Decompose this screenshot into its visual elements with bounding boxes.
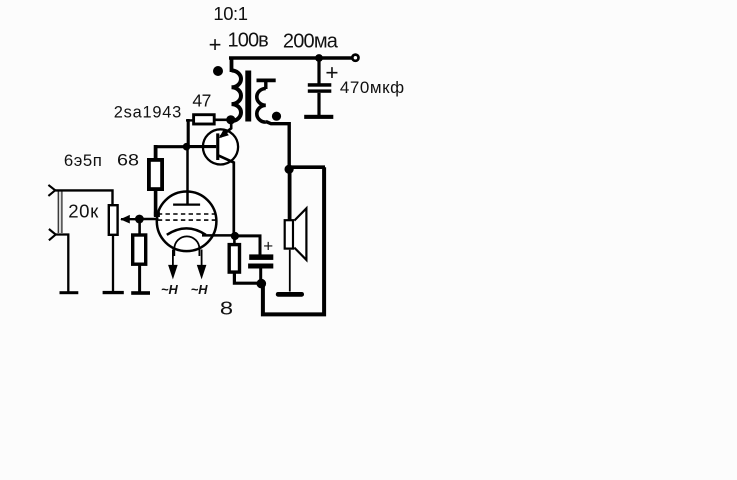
heater arrow right shaft: [201, 250, 203, 271]
ground bar speaker: [276, 292, 304, 297]
tube V1 heater arch: [174, 236, 199, 256]
capacitor C2 feed wire: [236, 236, 260, 255]
input cable double line: [58, 191, 62, 233]
resistor R4 8 top lead: [233, 237, 236, 244]
capacitor C1 lead bottom: [317, 93, 320, 115]
svg-text:+: +: [263, 237, 273, 256]
svg-text:~Н: ~Н: [161, 282, 178, 297]
wire R4 bottom lead: [234, 272, 259, 283]
heater arrow left head: [168, 265, 178, 280]
svg-text:10:1: 10:1: [213, 3, 247, 24]
node C2 bottom junction dot: [257, 279, 267, 289]
transformer T1 core: [245, 71, 251, 122]
node primary bottom junction: [226, 115, 235, 124]
wire R1 left corner down: [187, 119, 190, 145]
svg-text:20к: 20к: [68, 200, 99, 221]
capacitor C1 bottom bar: [304, 115, 333, 119]
pot wiper arrow head: [120, 215, 130, 224]
svg-text:8: 8: [220, 299, 233, 319]
tube V1 cathode lead: [202, 234, 233, 237]
wire top supply rail: [229, 56, 352, 60]
resistor R3 grid leak body: [133, 235, 146, 264]
wire anode lead: [186, 148, 189, 204]
wire wiper down to grid leak resistor: [138, 221, 141, 234]
wire secondary junction horizontal: [289, 165, 325, 169]
transistor Q1 base lead: [188, 145, 216, 148]
wire R1 left lead: [186, 119, 193, 121]
wire pot bottom lead: [112, 236, 114, 292]
resistor R1 47 body: [194, 115, 215, 124]
tube V1 screen grid dashed: [158, 213, 216, 215]
node junction on rail: [315, 54, 323, 62]
svg-text:68: 68: [117, 152, 139, 170]
transformer T1 secondary stub: [264, 80, 267, 89]
tube V1 anode plate: [173, 203, 200, 205]
transistor Q1 collector lead: [218, 155, 234, 233]
ground bar R3: [131, 291, 150, 295]
wire base node to left: [154, 145, 184, 148]
node base junction dot: [183, 143, 191, 151]
terminal open circle: [352, 55, 358, 61]
transistor Q1 emitter lead: [220, 121, 231, 137]
wire R1 right lead: [215, 119, 229, 122]
wire R3 bottom lead: [138, 264, 141, 292]
node wiper junction dot: [135, 215, 144, 224]
tube V1 envelope circle: [157, 192, 217, 252]
node secondary junction dot: [285, 165, 294, 174]
svg-text:+: +: [209, 32, 222, 57]
tube V1 cathode arc: [167, 228, 206, 234]
speaker bottom lead: [289, 250, 291, 292]
potentiometer 20к body: [109, 205, 118, 235]
ground bar input: [60, 291, 79, 294]
svg-text:470мкф: 470мкф: [340, 78, 405, 97]
capacitor C1 470мкф lead top: [317, 59, 320, 84]
capacitor C2 bottom plate: [248, 264, 273, 269]
resistor R4 8 body: [229, 245, 239, 273]
transformer T1 secondary winding: [257, 89, 266, 123]
wire secondary bottom lead: [266, 122, 289, 169]
transformer T1 primary winding: [232, 71, 242, 121]
speaker LS1 body: [285, 220, 293, 248]
svg-text:200ма: 200ма: [283, 30, 339, 52]
tube V1 control grid dashed: [158, 219, 216, 221]
input jack bottom contact: [49, 229, 56, 240]
wire speaker top lead: [288, 170, 292, 220]
transformer T1 secondary top bar: [257, 79, 276, 83]
wire wiper to grid: [141, 218, 159, 220]
svg-text:100в: 100в: [228, 30, 269, 52]
capacitor C1 bottom plate: [308, 89, 332, 92]
transformer T1 secondary phase dot: [272, 112, 281, 121]
capacitor C2 bottom lead: [259, 269, 262, 282]
tube V1 anode lead inside: [186, 192, 189, 205]
transistor Q1 emitter arrow: [219, 129, 229, 139]
speaker LS1 cone: [294, 208, 306, 260]
svg-text:~Н: ~Н: [191, 282, 208, 297]
node screen grid tie blob: [154, 212, 160, 217]
resistor R2 68 body: [149, 160, 162, 189]
wire corner down to R2: [154, 145, 158, 159]
transformer T1 primary top lead: [230, 58, 234, 72]
ground bar pot: [103, 291, 124, 294]
transistor Q1 base bar: [216, 133, 219, 160]
wire input top to pot: [55, 190, 112, 205]
transformer T1 primary phase dot: [213, 66, 223, 76]
svg-text:47: 47: [192, 90, 211, 110]
heater arrow left shaft: [172, 250, 174, 271]
svg-text:6э5п: 6э5п: [64, 151, 103, 170]
wire bottom return loop: [263, 167, 324, 314]
heater arrow right head: [197, 265, 207, 280]
capacitor C1 top plate: [308, 83, 332, 87]
capacitor C2 top plate: [249, 254, 273, 260]
input jack top contact: [48, 185, 55, 196]
svg-text:2sa1943: 2sa1943: [114, 103, 182, 121]
transistor Q1 circle: [203, 129, 238, 164]
node cathode junction dot: [231, 232, 239, 240]
pot wiper wire: [121, 218, 138, 220]
wire R2 bottom lead: [154, 189, 158, 216]
wire input sleeve to ground: [56, 235, 69, 292]
svg-text:+: +: [325, 60, 338, 85]
